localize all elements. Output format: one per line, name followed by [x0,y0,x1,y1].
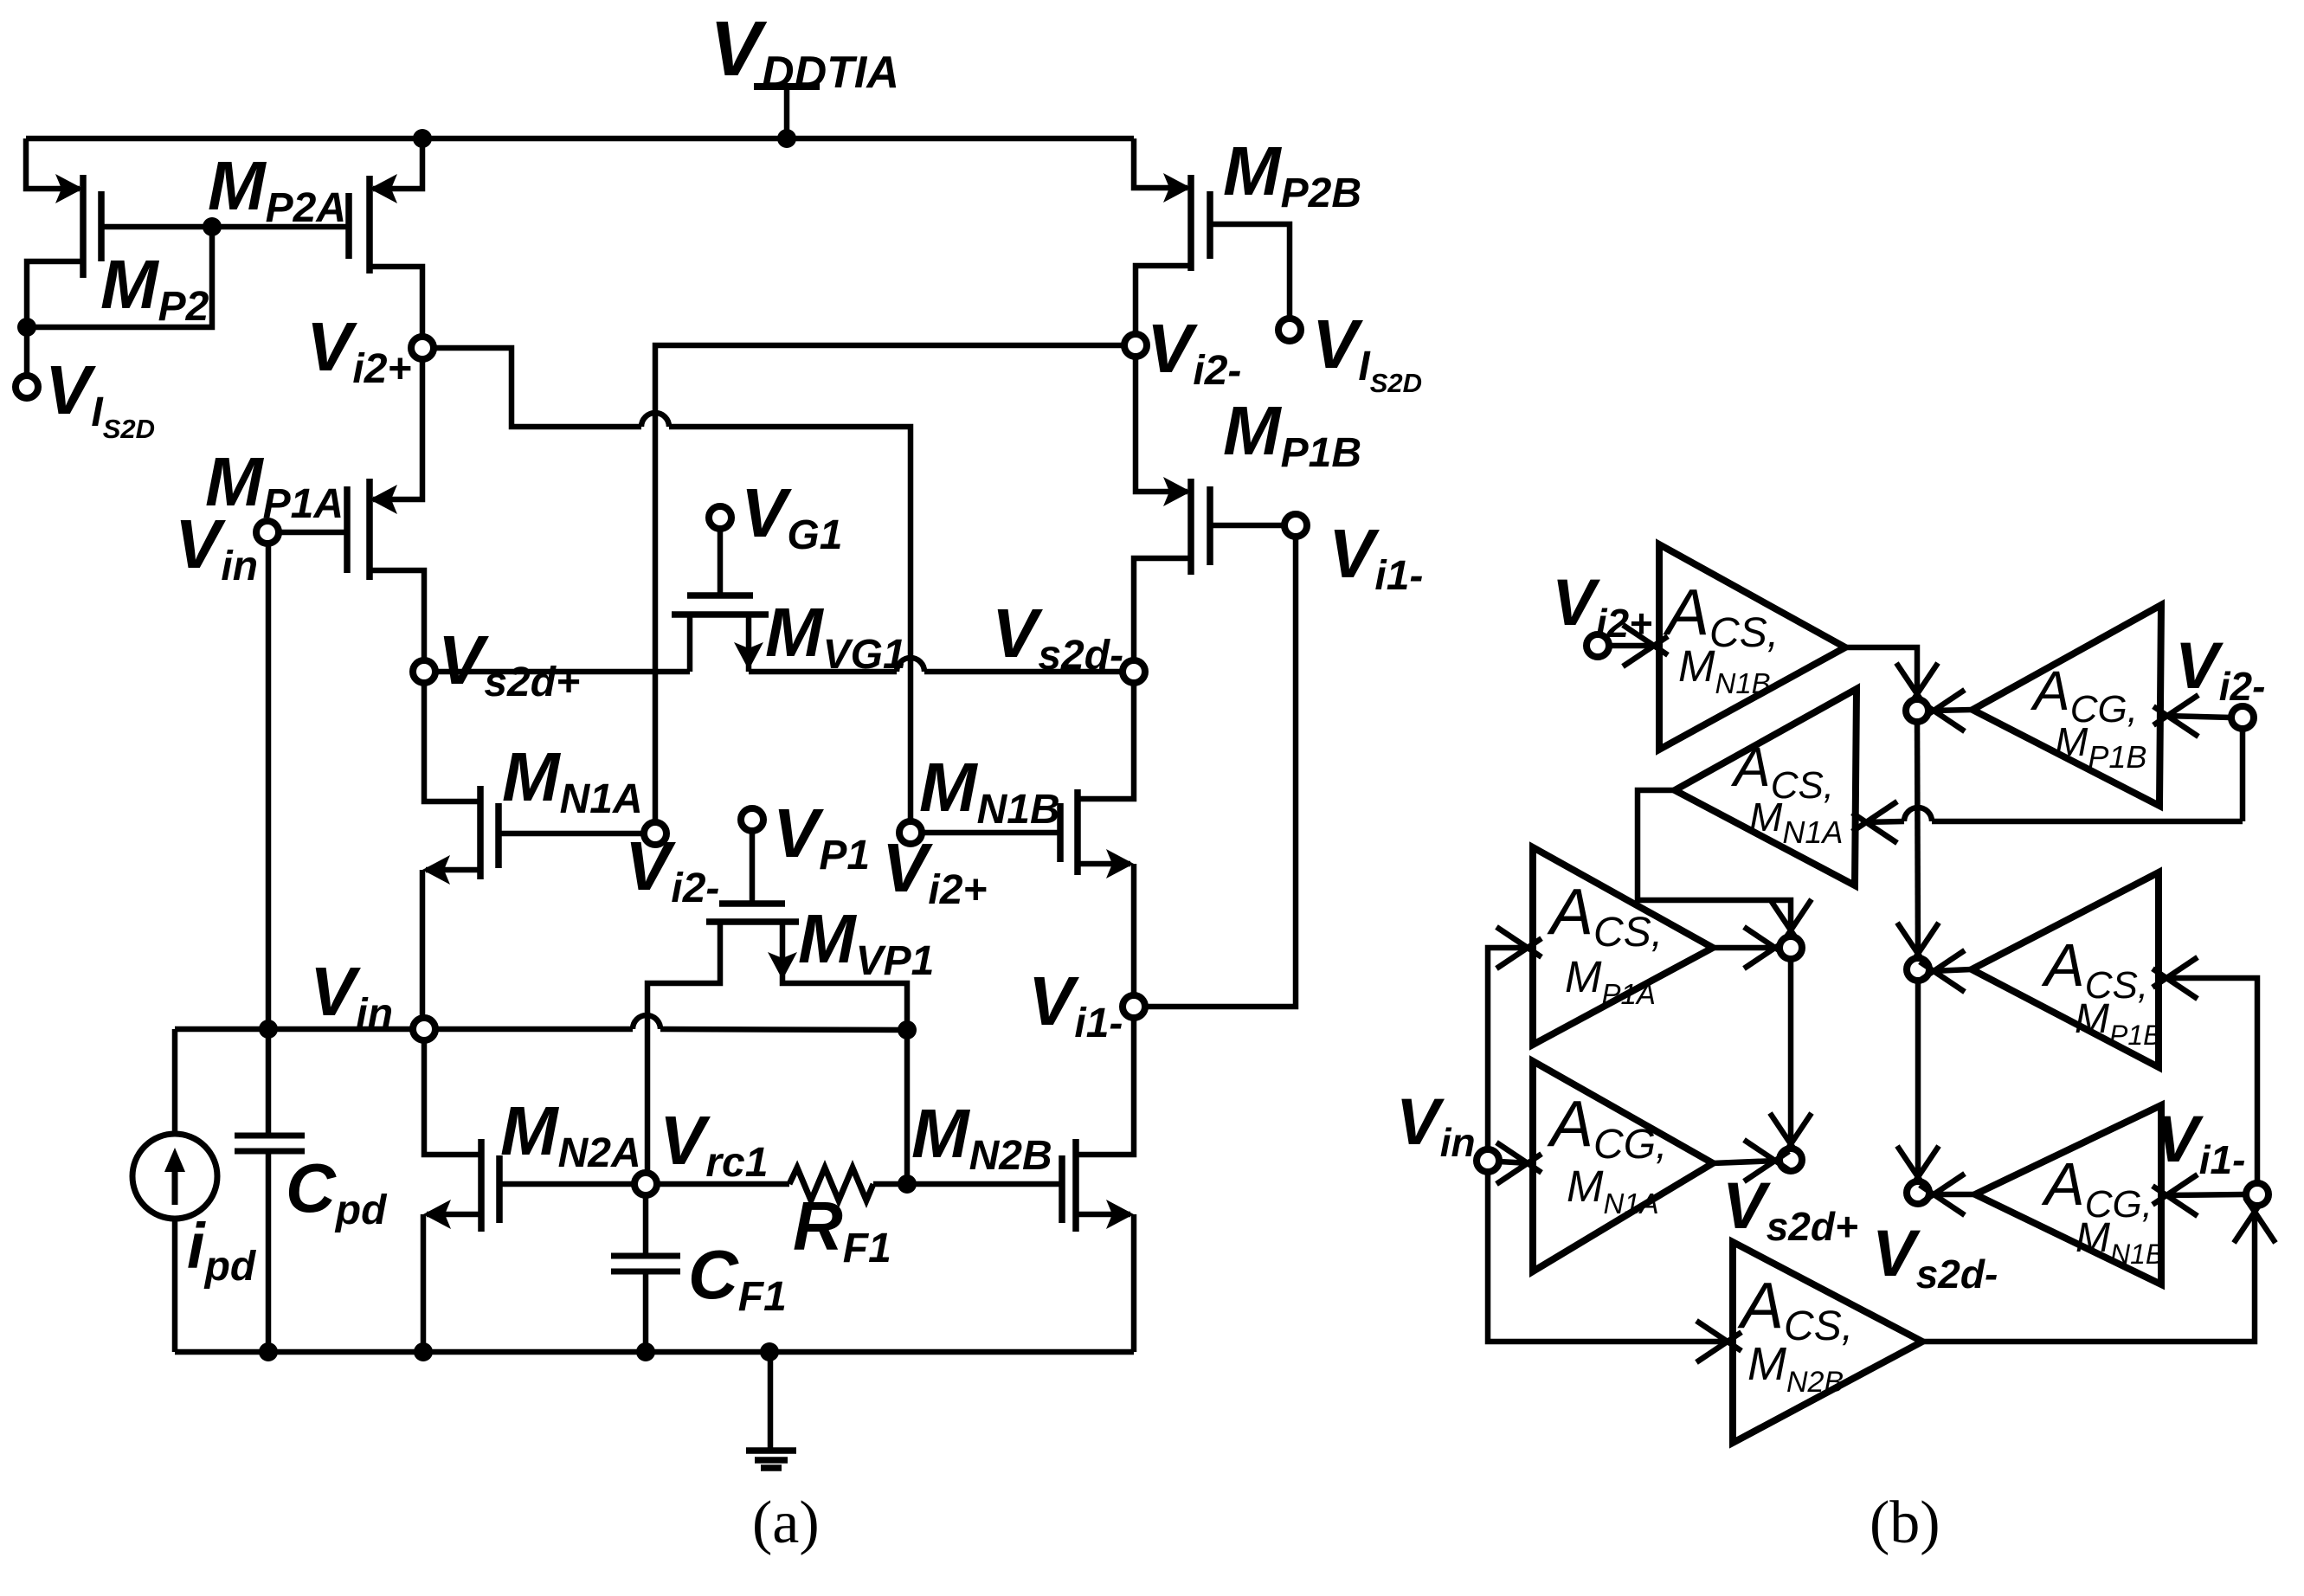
wire bottom rail [175,1349,1134,1355]
wire T2 output (b) [1920,690,1973,731]
wire Vi1- to T6 (b) [2153,957,2257,1183]
label MP1B [1223,392,1361,476]
transistor MP2B source arrow [1163,173,1191,203]
transistor MP1B source arrow [1163,477,1191,506]
label Vs2d- (b) [1872,1217,1998,1297]
label Vi2+ (b) [1552,566,1652,646]
transistor MP2 source arrow [55,174,83,203]
label MP2A [208,147,346,231]
wire Vrc1 to RF1 [657,1181,789,1187]
node sum2 (b) [1907,958,1929,981]
wire column N1-C (b) [1897,722,1939,968]
wire Cpd top [266,1029,272,1136]
wire Vin down to MN2A drain [424,1040,481,1155]
svg-text:(b): (b) [1870,1490,1940,1556]
junction top rail / MP2A source [413,129,432,148]
wire MVG1 source lead [687,615,693,672]
wire VDDTIA top rail [26,136,1134,142]
wire column A-B (b) [1770,959,1812,1158]
node sum3 Vs2d- (b) [1907,1181,1929,1204]
transistor MN2A [481,1139,499,1232]
terminal Vi2- (b) [2231,706,2254,729]
wire MN1B source down to Vi1- [1131,864,1137,995]
label MP1A [205,443,344,527]
wire MN2B drain up [1076,1018,1134,1155]
node sumA (b) [1779,936,1802,959]
transistor MN1A source arrow [422,855,450,885]
label Vin gate [175,505,258,589]
wire Vi2+ to MN1B gate [434,348,911,821]
current source ipd [132,1134,217,1219]
wire VP1 stem [750,831,756,904]
transistor MP1B [1191,479,1210,575]
wire MP2 drain [27,261,83,327]
label VIS2D left [45,351,155,444]
node Vs2d+ [413,660,435,683]
label Vin node [310,953,393,1037]
caption (b) [1870,1490,1940,1556]
transistor MN2A source arrow [423,1200,451,1229]
wire MN2B source down [1131,1214,1137,1352]
wire MP2B drain [1136,266,1191,334]
wire MN1B drain [1078,683,1134,799]
wire MVP1 drain to RF1 node [904,1030,911,1184]
terminal Vi2+ (b) [1586,634,1609,657]
wire MP1A gate lead [279,530,347,536]
junction rail/CF1 [636,1342,655,1361]
transistor MP2A [349,176,370,274]
transistor MVP1 [706,904,799,922]
wire MVG1 drain lead [746,615,752,672]
terminal MN1A gate Vi2- [644,822,666,845]
terminal Vi1- (b) [2246,1183,2269,1206]
wire Vin to T8 (b) [1488,1172,1741,1362]
label MP1B gate Vi1- [1329,515,1423,599]
label Vi2+ top [306,308,411,392]
wire MP1B drain [1134,558,1191,660]
wire T4 output (b) [1713,927,1789,969]
terminal MP1B gate Vi1- [1284,514,1307,537]
wire Vi1- to MP1B gate [1146,537,1296,1007]
wire MN2A source [427,1212,481,1218]
label MN1A gate Vi2- [625,827,719,911]
label MN1B gate Vi2+ [882,829,987,913]
wire Vi2+ input (b) [1609,625,1668,666]
transistor MP1A [347,479,370,580]
terminal Vin (b) [1477,1149,1499,1172]
wire T1 output (b) [1845,647,1938,708]
wire MN2B source [1076,1212,1130,1218]
label ACS,MN1B (b) [1663,576,1779,699]
wire RF1 to MN2B gate [873,1181,1062,1187]
wire Vi2- to T3 (b) [1852,729,2243,843]
wire MP2 gate to MP2A gate [101,224,349,230]
label Vs2d+ [438,621,580,705]
wire MP1A drain to Vs2d+ [370,570,424,660]
label ACG,MN1B (b) [2041,1150,2164,1270]
terminal VP1 [741,808,763,831]
wire MN1A source [426,867,480,873]
label ACG,MP1B (b) [2030,660,2146,775]
label ACS,MN1A (b) [1730,736,1843,850]
junction top rail / VDDTIA [777,129,796,148]
terminal Vin gate [256,521,279,544]
capacitor Cpd [235,1136,305,1151]
amplifier ACS,MP1A (b) [1533,847,1713,1045]
junction Vin/Cpd [259,1020,278,1039]
junction MP2 gate node [203,217,222,236]
transistor MN2B source arrow [1106,1200,1134,1229]
junction Vin/MVP1 drain [898,1020,917,1039]
amplifier ACG,MN1A (b) [1533,1061,1713,1271]
wire T3 output (b) [1638,790,1812,944]
node Vi2- top [1124,334,1147,357]
label MN1B [919,749,1060,833]
label ACG,MN1A (b) [1547,1087,1667,1220]
svg-text:(a): (a) [752,1490,820,1556]
wire Vin gate stem down [266,544,272,1029]
label RF1 [793,1187,891,1271]
wire Vs2d- rail right [749,658,1122,672]
wire Vi1- to T7 (b) [2153,1174,2246,1216]
supply VDDTIA symbol [754,87,820,138]
wire CF1 bottom [643,1271,649,1352]
terminal VG1 [709,506,731,529]
junction RF1/MVP1-drain [898,1174,917,1194]
wire MVP1 drain path [782,922,907,1030]
transistor MP1A source arrow [370,485,397,514]
label MP2 [100,246,209,330]
ground symbol [746,1352,796,1468]
label Vi2- top [1147,310,1241,394]
label Vin (b) [1396,1085,1476,1165]
label MN2A [500,1092,641,1176]
label VDDTIA [710,6,899,98]
terminal MN1B gate Vi2+ [899,821,922,844]
label VP1 [773,795,870,878]
wire MN1A source down to Vin [420,870,426,1018]
wire column C-D (b) [1897,981,1939,1191]
node Vs2d- [1123,660,1145,683]
wire MP2 source from rail [26,138,80,189]
wire T2 input (b) [2153,695,2231,737]
label VIS2D right [1312,306,1422,398]
junction rail/ground [760,1342,779,1361]
wire MP1A source from Vi2+ [373,359,422,499]
wire Vs2d+ rail left [435,669,690,675]
wire gate-drain tie [27,227,212,327]
wire MP1B source from Vi2- [1136,357,1187,492]
wire T5 output (b) [1713,1140,1789,1181]
label Vi1- (b) [2155,1103,2245,1182]
label MP2B [1223,132,1361,216]
label MN2B [911,1095,1052,1179]
wire MP1B gate lead [1210,523,1284,529]
transistor MP2A source arrow [370,174,397,203]
label ACS,MN2B (b) [1737,1269,1853,1399]
label MN1A [502,738,643,822]
transistor MP2B [1191,175,1210,271]
wire Vi2- feed [655,345,1123,821]
label MVP1 [798,900,934,984]
wire MN1B source [1078,861,1130,867]
amplifier ACS,MN2B (b) [1733,1242,1922,1443]
caption (a) [752,1490,820,1556]
transistor MP2 [83,175,101,278]
transistor MN1B source arrow [1106,849,1134,878]
transistor MVG1 drain arrow [734,642,763,670]
wire T8 output (b) [1922,1198,2275,1342]
wire T4 input (b) [1488,927,1541,1149]
wire CF1 top [643,1195,649,1256]
node Vi2+ top [411,337,434,359]
amplifier ACS,MN1B (b) [1659,544,1845,750]
wire Cpd bottom [266,1151,272,1352]
wire MN2A gate lead [499,1181,634,1187]
transistor MVP1 drain arrow [768,952,797,980]
wire VG1 stem [718,529,724,595]
wire MP2A drain to Vi2+ [370,267,422,336]
label VG1 [741,474,842,558]
node Vi1- [1123,995,1145,1018]
wire MP2B source from rail [1134,138,1187,188]
label ACS,MP1A (b) [1547,875,1663,1010]
wire MN2A source down [421,1214,427,1352]
node sum1 (b) [1906,699,1928,722]
wire ipd top [172,1029,178,1134]
amplifier ACG,MP1B (b) [1973,605,2161,806]
label Vs2d- [992,595,1123,679]
label MVG1 [765,594,906,678]
transistor MVG1 [672,595,769,615]
amplifier ACS,MP1B (b) [1972,872,2159,1067]
wire T7 output (b) [1920,1174,1975,1215]
wire MP2B gate lead [1210,224,1290,319]
wire Vin horizontal [175,1015,907,1030]
wire MP2A source from rail [373,138,422,189]
wire MN1A gate lead [499,831,644,837]
wire MN1A drain from Vs2d+ [424,683,480,801]
node Vrc1 [634,1173,657,1195]
label Cpd [286,1149,388,1233]
label Vs2d+ (b) [1722,1169,1858,1249]
node sumB Vs2d+ (b) [1779,1149,1802,1171]
label Vrc1 [660,1102,768,1186]
node Vin [413,1018,435,1040]
wire T5 input (b) [1496,1142,1541,1184]
junction rail/Cpd [259,1342,278,1361]
wire ipd bottom [172,1219,178,1352]
transistor MN2B [1062,1139,1076,1232]
wire VIS2D stem [24,327,30,375]
amplifier ACG,MN1B (b) [1975,1105,2161,1284]
transistor MN1A [480,786,499,879]
wire T6 output (b) [1920,950,1972,992]
label Vi1- node [1028,962,1123,1046]
label ACS,MP1B (b) [2041,931,2161,1051]
junction rail/MN2A [414,1342,433,1361]
resistor RF1 [789,1168,873,1200]
wire MN1B gate lead [923,830,1060,836]
label CF1 [688,1236,787,1320]
terminal VIS2D left [16,376,38,398]
label Vi2- (b) [2175,629,2265,709]
amplifier ACS,MN1A (b) [1675,689,1857,885]
wire MVP1 source path [647,922,720,1173]
transistor MN1B [1060,789,1078,875]
junction MP2 drain / VIS2D [17,318,36,337]
label ipd [187,1210,257,1290]
terminal VIS2D right [1278,319,1301,341]
capacitor CF1 [611,1256,680,1271]
